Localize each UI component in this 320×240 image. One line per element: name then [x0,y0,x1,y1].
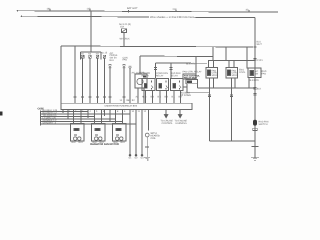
svg-text:COOL: COOL [239,71,246,74]
svg-text:BLU/BLK: BLU/BLK [181,92,191,95]
svg-text:BLK: BLK [72,141,77,144]
svg-text:Wire shades + in that FM3 link: Wire shades + in that FM3 link here [150,16,195,19]
svg-text:CONTROL: CONTROL [162,122,174,125]
svg-text:SENS: SENS [212,74,219,77]
svg-text:COIL: COIL [151,137,157,140]
svg-text:No.15: No.15 [101,51,108,54]
svg-text:BLU: BLU [110,59,115,62]
svg-text:UNDER-HOOD FUSE/RELAY BOX: UNDER-HOOD FUSE/RELAY BOX [105,104,138,107]
svg-text:WHT: WHT [257,43,263,46]
svg-text:C605: C605 [38,108,45,111]
svg-text:FAN: FAN [262,72,267,75]
svg-text:2P CONN: 2P CONN [181,94,192,97]
svg-text:WHT/BLK: WHT/BLK [120,38,131,41]
svg-text:RELAY: RELAY [142,75,150,78]
svg-text:SENS: SENS [232,74,239,77]
svg-text:21C: 21C [173,8,178,11]
svg-text:14B: 14B [87,8,92,11]
svg-text:BLK/RED: BLK/RED [249,79,259,82]
svg-text:SWITCH: SWITCH [259,123,268,126]
svg-text:RELAY: RELAY [171,75,179,78]
svg-text:GRN/WHT .5: GRN/WHT .5 [43,122,57,125]
svg-text:FAN: FAN [123,59,128,62]
svg-text:15A: 15A [120,25,125,28]
svg-text:HARNESS: HARNESS [176,122,188,125]
svg-text:BLK/YEL: BLK/YEL [186,62,196,65]
svg-text:RELAY MOD: RELAY MOD [184,77,197,80]
svg-text:RADIATOR FAN MOTOR: RADIATOR FAN MOTOR [90,143,119,146]
svg-text:C123: C123 [257,59,263,62]
svg-text:BLU: BLU [121,141,126,144]
svg-text:BAT HOT: BAT HOT [127,7,138,10]
svg-text:BLU: BLU [79,141,84,144]
svg-text:BLK: BLK [257,88,262,91]
svg-text:3D: 3D [246,9,249,12]
svg-text:RELAY: RELAY [156,75,164,78]
svg-text:FAN CTRL RELAY: FAN CTRL RELAY [183,71,202,74]
svg-text:18A: 18A [47,8,52,11]
